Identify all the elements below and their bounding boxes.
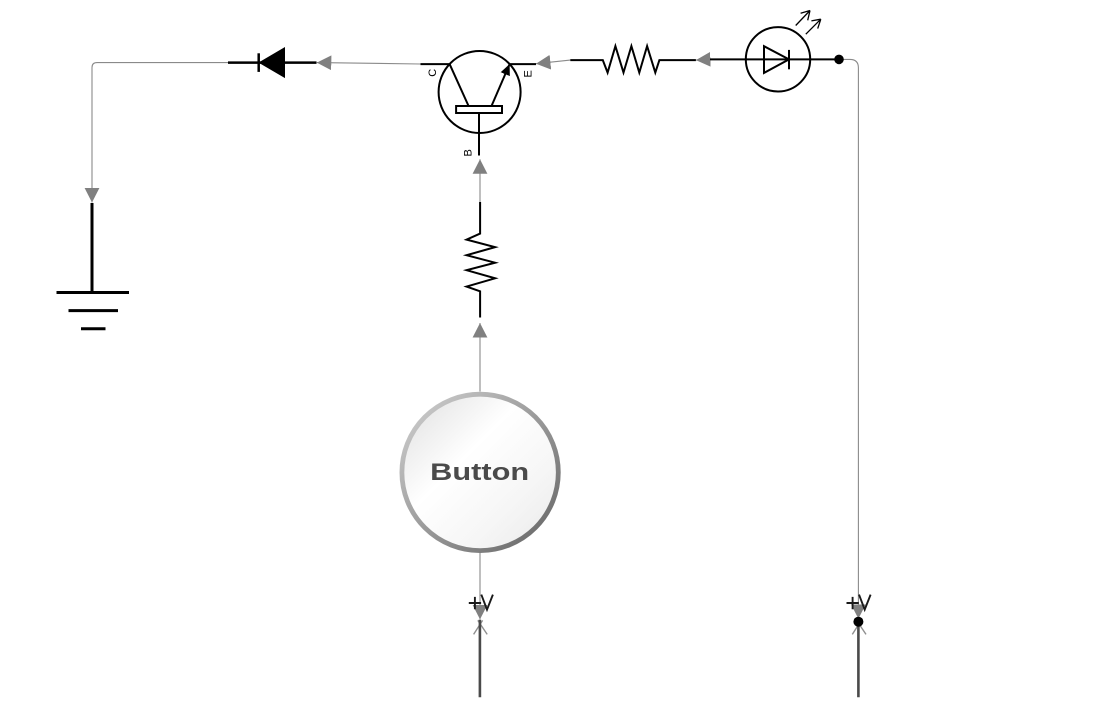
svg-text:Button: Button — [430, 459, 529, 486]
svg-text:C: C — [427, 69, 439, 77]
svg-text:E: E — [523, 70, 535, 77]
svg-text:B: B — [463, 149, 475, 156]
